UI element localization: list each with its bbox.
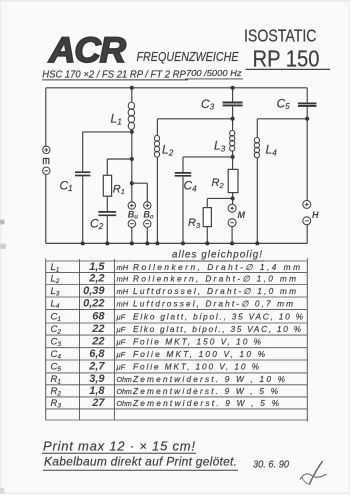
label M bbox=[238, 210, 246, 220]
wire L3 to R2 bbox=[232, 151, 234, 170]
table row R1 bbox=[51, 373, 286, 386]
svg-text:M: M bbox=[238, 210, 246, 220]
svg-text:μF: μF bbox=[116, 338, 126, 347]
wire Bo branch upper bbox=[146, 183, 148, 201]
table row L1 bbox=[51, 261, 301, 274]
wire C1 branch horizontal bbox=[83, 131, 132, 133]
svg-text:0,22: 0,22 bbox=[83, 298, 104, 310]
svg-text:6,8: 6,8 bbox=[89, 348, 105, 360]
wire R1 to C2 bbox=[106, 196, 108, 211]
terminal Bu minus bbox=[128, 220, 135, 227]
svg-text:μF: μF bbox=[116, 313, 126, 322]
svg-text:alles gleichpolig!: alles gleichpolig! bbox=[172, 249, 262, 260]
label C5 bbox=[277, 96, 291, 111]
label R2 bbox=[212, 177, 225, 190]
note alles gleichpolig bbox=[171, 249, 265, 261]
title FREQUENZWEICHE bbox=[137, 50, 240, 64]
wire L1 chain down bbox=[131, 129, 133, 202]
inductor L4 bbox=[254, 138, 259, 158]
label L3 bbox=[214, 139, 226, 154]
svg-text:Folie MKT, 150 V, 10 %: Folie MKT, 150 V, 10 % bbox=[133, 337, 262, 347]
underline under RP 150 bbox=[246, 68, 331, 70]
svg-text:Ohm: Ohm bbox=[117, 377, 132, 384]
svg-text:ACR: ACR bbox=[48, 31, 127, 70]
label Bo bbox=[143, 209, 154, 220]
logo ACR bbox=[48, 31, 127, 70]
wire C1 branch lower bbox=[81, 176, 85, 245]
svg-text:22: 22 bbox=[91, 323, 104, 335]
table grid bbox=[46, 258, 308, 421]
svg-text:3,9: 3,9 bbox=[89, 373, 105, 385]
svg-text:Kabelbaum direkt auf Print gel: Kabelbaum direkt auf Print gelötet. bbox=[44, 455, 237, 469]
capacitor C5 bbox=[298, 103, 317, 106]
junction L3/C4 bbox=[231, 155, 235, 159]
svg-text:H: H bbox=[312, 210, 319, 220]
terminal Bo plus bbox=[144, 202, 151, 209]
svg-text:ISOSTATIC: ISOSTATIC bbox=[244, 25, 317, 45]
date 30.6.90 bbox=[253, 459, 289, 471]
label H bbox=[312, 210, 319, 220]
note print size bbox=[42, 438, 196, 453]
label L2 bbox=[162, 143, 174, 158]
model name ISOSTATIC bbox=[244, 25, 317, 45]
svg-text:FREQUENZWEICHE: FREQUENZWEICHE bbox=[137, 50, 240, 64]
wire L2 bus horizontal bbox=[157, 118, 232, 120]
table row C5 bbox=[51, 361, 260, 374]
svg-text:mH: mH bbox=[117, 300, 129, 309]
scan artifact left edge blob bbox=[0, 244, 6, 250]
wire Bu to rail bbox=[130, 228, 134, 246]
label C2 bbox=[90, 216, 104, 231]
label L1 bbox=[111, 112, 122, 127]
wire R1 branch horizontal bbox=[107, 158, 132, 160]
inductor L2 bbox=[154, 135, 159, 157]
label C1 bbox=[60, 178, 73, 193]
underline under subtitle bbox=[42, 79, 188, 81]
svg-text:22: 22 bbox=[91, 336, 104, 348]
label R3 bbox=[188, 217, 201, 230]
wire right border mid bbox=[306, 107, 308, 201]
signature mark bbox=[300, 461, 327, 485]
label C3 bbox=[201, 97, 215, 112]
svg-text:Ohm: Ohm bbox=[117, 401, 132, 408]
junction right/bus bbox=[305, 117, 309, 121]
wire Bo branch horizontal bbox=[132, 182, 148, 184]
table row L3 bbox=[51, 285, 297, 298]
wire bottom rail bbox=[46, 242, 307, 244]
capacitor C2 bbox=[98, 212, 116, 215]
wire R3 to rail bbox=[205, 227, 209, 246]
scan artifact left edge dash bbox=[0, 220, 5, 225]
svg-text:Luftdrossel, Draht-∅ 0,7 mm: Luftdrossel, Draht-∅ 0,7 mm bbox=[133, 299, 293, 309]
table row C4 bbox=[51, 348, 266, 361]
inductor L3 bbox=[230, 130, 235, 151]
scan artifact bottom left bbox=[0, 488, 5, 495]
svg-text:μF: μF bbox=[116, 350, 126, 359]
svg-text:μF: μF bbox=[116, 363, 126, 372]
wire C3 top bbox=[231, 86, 235, 102]
table row L2 bbox=[51, 273, 297, 286]
wire C3 to L3 bbox=[232, 106, 234, 131]
svg-text:Ohm: Ohm bbox=[117, 389, 132, 396]
svg-text:1,8: 1,8 bbox=[89, 385, 105, 397]
wire R3 branch horizontal bbox=[207, 197, 232, 199]
label C4 bbox=[184, 179, 198, 194]
table row C2 bbox=[51, 323, 302, 336]
svg-text:68: 68 bbox=[92, 311, 105, 323]
wire C4 branch horizontal bbox=[183, 156, 233, 158]
label E (rotated) bbox=[43, 158, 49, 164]
wire L4 bus horizontal bbox=[257, 118, 307, 120]
wire L4 branch upper bbox=[256, 119, 258, 138]
table row R2 bbox=[51, 385, 279, 398]
model number RP 150 bbox=[253, 46, 320, 72]
wire L4 to rail bbox=[255, 157, 259, 245]
capacitor C3 bbox=[223, 103, 243, 106]
resistor R2 bbox=[228, 169, 238, 192]
svg-text:mH: mH bbox=[117, 287, 129, 296]
wire C4 branch upper bbox=[182, 157, 184, 172]
crossover frequencies 700/5000 Hz bbox=[186, 69, 242, 78]
wire left border upper bbox=[45, 88, 47, 146]
inductor L1 bbox=[128, 102, 134, 129]
subtitle drivers HSC 170x2 / FS 21 RP / FT 2 RP bbox=[42, 69, 186, 80]
resistor R1 bbox=[103, 175, 111, 196]
wire M to rail bbox=[230, 227, 234, 246]
svg-text:700 /5000 Hz: 700 /5000 Hz bbox=[186, 69, 242, 78]
terminal Bo minus bbox=[144, 220, 151, 227]
wire R1 branch upper bbox=[106, 159, 108, 175]
label Bu bbox=[128, 209, 139, 220]
wire R2 to M bbox=[232, 193, 234, 205]
svg-text:mH: mH bbox=[117, 263, 129, 272]
wire C1 branch upper bbox=[82, 132, 84, 171]
junction R2/R3 bbox=[231, 196, 235, 200]
resistor R3 bbox=[203, 208, 211, 227]
svg-text:30. 6. 90: 30. 6. 90 bbox=[253, 459, 289, 471]
wire left border lower bbox=[45, 175, 47, 244]
svg-text:2,7: 2,7 bbox=[88, 361, 105, 373]
junction L1/R1 bbox=[130, 157, 134, 161]
svg-text:Rollenkern, Draht-∅ 1,0 mm: Rollenkern, Draht-∅ 1,0 mm bbox=[133, 274, 296, 284]
terminal H plus bbox=[303, 200, 311, 208]
svg-text:2,2: 2,2 bbox=[88, 273, 104, 285]
svg-text:RP 150: RP 150 bbox=[253, 46, 320, 72]
terminal M plus bbox=[228, 204, 236, 212]
terminal E minus bbox=[43, 167, 50, 174]
svg-text:Folie MKT, 100 V, 10 %: Folie MKT, 100 V, 10 % bbox=[133, 362, 260, 372]
svg-text:Folie MKT, 100 V, 10 %: Folie MKT, 100 V, 10 % bbox=[133, 349, 266, 359]
wire L2 to rail bbox=[155, 157, 159, 245]
wire right border upper bbox=[306, 88, 308, 103]
terminal H minus bbox=[303, 217, 311, 225]
junction L1/C1 bbox=[130, 130, 134, 134]
capacitor C1 bbox=[75, 172, 90, 175]
label R1 bbox=[113, 183, 125, 196]
table row L4 bbox=[51, 298, 294, 311]
wire C2 to rail bbox=[105, 216, 109, 245]
note kabelbaum bbox=[43, 455, 238, 471]
svg-text:mH: mH bbox=[117, 275, 129, 284]
wire L1 top bbox=[130, 86, 134, 103]
label L4 bbox=[266, 143, 278, 158]
table row C1 bbox=[51, 311, 304, 324]
terminal Bu plus bbox=[128, 202, 135, 209]
wire top rail bbox=[46, 87, 307, 89]
svg-text:Rollenkern, Draht-∅ 1,4 mm: Rollenkern, Draht-∅ 1,4 mm bbox=[133, 262, 300, 272]
wire C4 to rail bbox=[181, 177, 185, 246]
wire Bo to rail bbox=[145, 228, 149, 246]
terminal M minus bbox=[228, 219, 236, 227]
table row C3 bbox=[51, 336, 262, 349]
svg-text:HSC 170 ×2 / FS 21 RP / FT 2 R: HSC 170 ×2 / FS 21 RP / FT 2 RP bbox=[42, 69, 186, 80]
underline under frequencies bbox=[185, 78, 243, 80]
wire L2 branch upper bbox=[156, 119, 158, 136]
junction C3/bus bbox=[231, 117, 235, 121]
wire R3 branch upper bbox=[206, 198, 208, 207]
junction L1/Bo bbox=[130, 181, 134, 185]
svg-text:1,5: 1,5 bbox=[89, 261, 105, 273]
table row R3 bbox=[51, 397, 280, 410]
wire right border lower bbox=[306, 225, 308, 244]
svg-text:Print max 12 · × 15 cm!: Print max 12 · × 15 cm! bbox=[43, 438, 195, 453]
svg-text:Luftdrossel, Draht-∅ 1,0 mm: Luftdrossel, Draht-∅ 1,0 mm bbox=[133, 286, 296, 296]
svg-text:27: 27 bbox=[91, 397, 105, 409]
terminal E plus bbox=[43, 146, 50, 153]
svg-text:μF: μF bbox=[116, 325, 126, 334]
capacitor C4 bbox=[175, 173, 192, 176]
svg-text:0,39: 0,39 bbox=[83, 285, 105, 297]
